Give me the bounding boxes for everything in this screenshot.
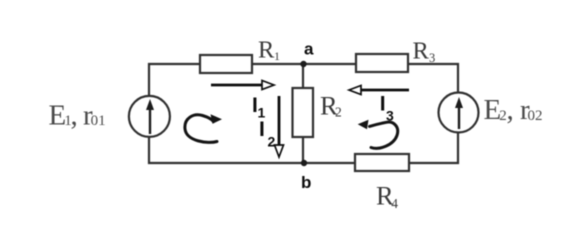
svg-text:2: 2 <box>268 134 276 150</box>
wire R3 to top-right corner down to E2 <box>408 64 458 93</box>
wire E2 bottom to bottom-right corner to R4 <box>409 132 458 163</box>
wire bottom: R4 to node b to bottom-left corner up to E1 <box>149 136 355 163</box>
svg-text:R: R <box>413 37 430 64</box>
svg-text:01: 01 <box>91 113 106 129</box>
node b <box>301 160 307 166</box>
mesh loop arrow 1 <box>185 114 222 142</box>
svg-text:R: R <box>258 37 275 64</box>
voltage source E2 <box>439 93 479 133</box>
svg-text:1: 1 <box>274 49 280 63</box>
label I2 <box>259 118 276 150</box>
current arrow I3 <box>349 86 409 95</box>
wire top-left: corner to R1 <box>149 64 200 96</box>
node a <box>300 61 306 67</box>
label R4 <box>376 181 398 211</box>
svg-text:3: 3 <box>429 51 435 65</box>
wire R1 to node a to R3 <box>252 63 356 65</box>
svg-text:,: , <box>71 99 78 131</box>
label I3 <box>380 92 394 123</box>
svg-text:2: 2 <box>335 105 342 120</box>
svg-text:I: I <box>259 118 265 141</box>
label R2 <box>320 91 342 121</box>
svg-text:02: 02 <box>528 108 543 124</box>
svg-text:,: , <box>507 94 514 126</box>
svg-text:3: 3 <box>386 108 394 124</box>
wire node a down to R2 <box>302 64 304 88</box>
resistor R2 <box>293 88 314 137</box>
svg-text:I: I <box>380 92 386 115</box>
label I1 <box>252 94 266 121</box>
current arrow I1 <box>211 81 274 90</box>
svg-text:b: b <box>301 173 311 192</box>
svg-text:a: a <box>304 39 314 58</box>
mesh loop arrow 2 <box>358 120 398 148</box>
label E2, r02 <box>484 94 543 126</box>
svg-text:4: 4 <box>391 196 398 211</box>
label R3 <box>413 37 436 65</box>
resistor R4 <box>355 154 409 171</box>
resistor R3 <box>356 54 408 72</box>
wire R2 down to node b <box>302 137 304 163</box>
resistor R1 <box>200 55 252 73</box>
label R1 <box>258 37 280 64</box>
voltage source E1 <box>129 96 170 137</box>
current arrow I2 <box>275 96 284 157</box>
label E1, r01 <box>49 99 106 131</box>
